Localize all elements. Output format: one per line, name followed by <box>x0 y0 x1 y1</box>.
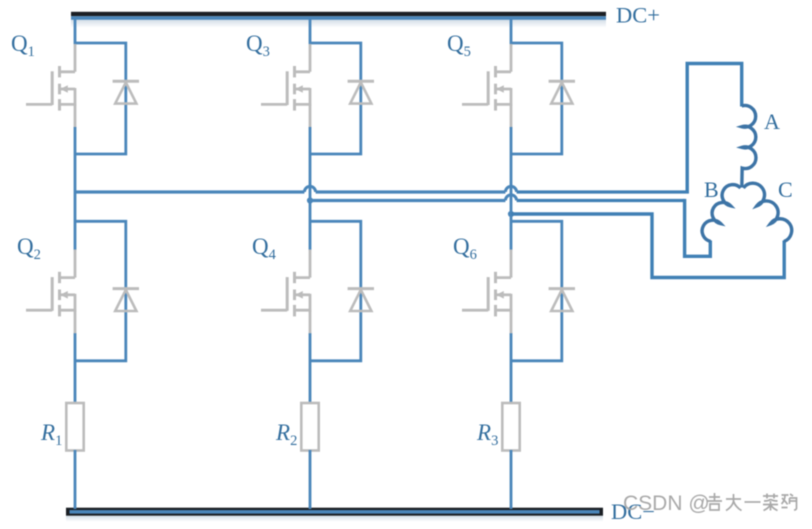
wire phase A horizontal <box>75 190 304 193</box>
wire Q2 drain lead <box>74 250 77 278</box>
MOSFET Q1 <box>26 66 75 111</box>
watermark CJK glyphs (decor) <box>707 493 797 511</box>
inductor winding A <box>742 106 756 188</box>
wire Q4 drain lead <box>309 250 312 278</box>
resistor R1 <box>66 403 83 451</box>
wire leg2 from DC+ bus to Q3 drain node <box>309 20 312 45</box>
wire leg3 Q6 source to R3 <box>510 333 513 404</box>
wire Q2 freewheel diode loop <box>75 221 126 360</box>
wire Q4 source lead <box>309 310 312 334</box>
node phase B junction at leg2 <box>307 197 313 203</box>
svg-text:C: C <box>778 177 793 202</box>
inductor winding C <box>743 183 791 241</box>
wire phase C horizontal/down/over to winding C <box>511 214 784 278</box>
wire leg3 Q5 source to phase node <box>510 127 513 250</box>
svg-text:A: A <box>764 109 780 134</box>
svg-text:B: B <box>704 177 719 202</box>
MOSFET Q2 <box>26 272 75 317</box>
wire leg1 from DC+ bus to Q1 drain node <box>74 20 77 45</box>
wire Q1 drain lead <box>74 44 77 72</box>
wire Q1 freewheel diode loop <box>75 43 126 154</box>
MOSFET Q4 <box>261 272 310 317</box>
body diode D4 <box>348 289 374 311</box>
wire hop: phase B over leg3 <box>505 195 516 201</box>
wire Q1 source lead <box>74 104 77 128</box>
resistor R2 <box>301 403 318 451</box>
wire Q3 freewheel diode loop <box>310 43 361 154</box>
node phase C junction at leg3 <box>508 211 514 217</box>
body diode D6 <box>549 289 575 311</box>
body diode D5 <box>549 81 575 103</box>
wire phase B down/over to winding B <box>685 199 711 256</box>
wire Q6 drain lead <box>510 250 513 278</box>
wire leg2 Q4 source to R2 <box>309 333 312 404</box>
wire Q4 freewheel diode loop <box>310 221 361 360</box>
wire phase A up/over to winding A <box>687 64 742 194</box>
wire leg3 from DC+ bus to Q5 drain node <box>510 20 513 45</box>
wire leg1 Q2 source to R1 <box>74 333 77 404</box>
MOSFET Q3 <box>261 66 310 111</box>
svg-text:CSDN @: CSDN @ <box>623 492 710 515</box>
inductor winding B <box>702 185 740 242</box>
body diode D1 <box>113 81 139 103</box>
wire Q5 drain lead <box>510 44 513 72</box>
wire Q3 drain lead <box>309 44 312 72</box>
wire Q3 source lead <box>309 104 312 128</box>
body diode D2 <box>113 289 139 311</box>
wire hop: phase A over leg3 <box>505 186 516 192</box>
wire phase B horizontal <box>310 199 505 202</box>
wire leg1 R1 to DC- bus <box>74 450 77 509</box>
wire Q2 source lead <box>74 310 77 334</box>
DC- bus bar <box>66 508 603 522</box>
body diode D3 <box>348 81 374 103</box>
wire Q6 source lead <box>510 310 513 334</box>
MOSFET Q6 <box>462 272 511 317</box>
resistor R3 <box>502 403 519 451</box>
wire hop: phase A over leg2 <box>304 186 315 192</box>
wire leg1 Q1 source to phase node <box>74 127 77 250</box>
DC+ bus bar <box>71 12 606 28</box>
svg-text:DC+: DC+ <box>616 3 660 28</box>
wire leg2 Q3 source to phase node <box>309 127 312 250</box>
wire Q5 source lead <box>510 104 513 128</box>
wire leg3 R3 to DC- bus <box>510 450 513 509</box>
MOSFET Q5 <box>462 66 511 111</box>
wire Q6 freewheel diode loop <box>511 221 562 360</box>
wire Q5 freewheel diode loop <box>511 43 562 154</box>
wire leg2 R2 to DC- bus <box>309 450 312 509</box>
